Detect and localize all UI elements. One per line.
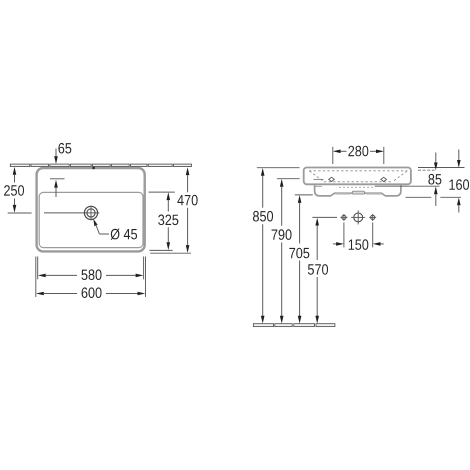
dimension 160 top extension: [418, 167, 465, 169]
hidden edge diagonals and bottom: [310, 171, 408, 182]
bowl hidden dashes: [339, 186, 374, 188]
label 280: [348, 146, 368, 157]
dimension 705: [295, 194, 313, 196]
label 250: [4, 185, 24, 196]
dimension 790: [277, 178, 300, 180]
bottom extension for 470: [150, 252, 191, 254]
body outline: [304, 168, 411, 185]
basin inner rim: [39, 192, 143, 247]
label Ø 45: [111, 229, 137, 240]
label 325: [158, 215, 178, 226]
dimension 600: [36, 292, 44, 296]
dimension 325: [149, 191, 175, 193]
tap diamond right: [381, 177, 387, 181]
dimension 85 top extension (dashed): [418, 169, 435, 171]
label 85: [428, 174, 441, 185]
leader Ø45: [93, 219, 97, 226]
tap diamond left: [329, 177, 335, 181]
250 extension line: [8, 212, 32, 214]
dimension 160: [458, 150, 460, 161]
label 570: [308, 264, 328, 275]
bowl bottom gray strips: [335, 194, 350, 195]
label 65: [58, 143, 71, 154]
65 inner tick: [50, 178, 65, 180]
dimension 150: [343, 223, 345, 248]
dimension 570: [312, 216, 337, 218]
dimension 85: [435, 153, 437, 163]
dimension 580: [38, 274, 46, 278]
580 extension lines: [37, 257, 39, 280]
hidden edge dashes top: [309, 170, 408, 172]
label 600: [82, 287, 102, 298]
dimension 280: [332, 147, 334, 164]
bowl shoulder lines: [315, 185, 322, 187]
bottom extension for 325: [149, 249, 172, 251]
dimension 470: [186, 167, 190, 175]
wall rail: [10, 164, 191, 166]
label 790: [272, 229, 292, 240]
600 extension lines: [35, 257, 37, 298]
dimension 65: [55, 149, 57, 158]
label 705: [289, 248, 309, 259]
dimension 250: [13, 167, 17, 175]
dimension 850: [257, 167, 300, 169]
label 150: [349, 239, 369, 250]
label 850: [253, 211, 273, 222]
center mark dot: [92, 167, 95, 170]
mounting hole center: [354, 213, 363, 222]
tap hole: [84, 206, 97, 219]
mounting hole left: [342, 215, 346, 219]
label 160: [449, 179, 469, 190]
drain boss: [352, 191, 364, 194]
floor bar: [253, 324, 335, 327]
basin outer outline: [37, 168, 145, 251]
overflow line: [314, 178, 324, 180]
tap hole centerline: [44, 212, 99, 214]
bowl outline: [315, 184, 401, 196]
label 580: [81, 269, 101, 280]
mounting hole right: [371, 215, 375, 219]
label 470: [177, 195, 197, 206]
